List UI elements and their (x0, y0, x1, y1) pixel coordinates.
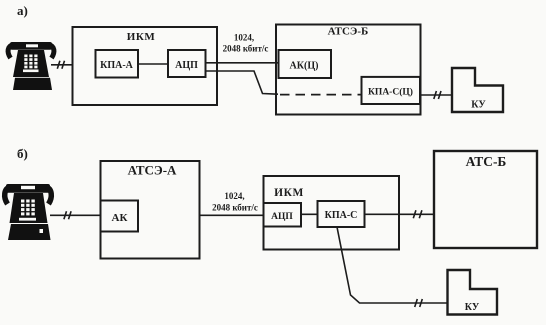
block ATS-B (434, 151, 537, 248)
label b) (17, 146, 28, 161)
svg-text:б): б) (17, 146, 28, 161)
svg-text:ИКМ: ИКМ (127, 31, 156, 43)
label a) (17, 3, 28, 18)
wire ACP to KPA-S (301, 213, 318, 215)
svg-text:АК(Ц): АК(Ц) (290, 61, 319, 72)
block ATSE-A (101, 161, 200, 259)
svg-text:АТСЭ-А: АТСЭ-А (128, 163, 177, 178)
svg-text:АТС-Б: АТС-Б (466, 154, 507, 169)
block IKM (PCM equipment), diagram a (73, 27, 218, 105)
block KPA-S(C) inside ATSE-B (362, 77, 421, 104)
svg-text:КПА-А: КПА-А (100, 60, 134, 71)
svg-text:АК: АК (112, 212, 128, 224)
svg-text:КПА-С(Ц): КПА-С(Ц) (368, 87, 413, 98)
svg-text:КУ: КУ (465, 302, 480, 313)
wire ATSE-B to KU (diagram a) with ticks (421, 91, 453, 99)
block KPA-S (diagram b) (318, 201, 365, 227)
svg-text:а): а) (17, 3, 28, 18)
svg-text:2048 кбит/с: 2048 кбит/с (212, 203, 258, 213)
svg-text:1024,: 1024, (224, 191, 244, 201)
svg-text:2048 кбит/с: 2048 кбит/с (223, 44, 269, 54)
wire TA1 to IKM with line ticks (51, 61, 73, 69)
block ATSE-B (276, 25, 421, 115)
block KU (diagram b) (448, 270, 498, 315)
svg-text:АТСЭ-Б: АТСЭ-Б (328, 26, 369, 38)
label 1024, 2048 kbit/s (diagram b) (212, 191, 258, 213)
dashed wire to KPA-S(C) (280, 94, 362, 96)
block IKM (diagram b) (264, 176, 400, 250)
svg-text:АЦП: АЦП (175, 60, 198, 71)
svg-text:КПА-С: КПА-С (325, 210, 358, 221)
block KU (diagram a) (452, 68, 503, 112)
svg-text:КУ: КУ (471, 100, 486, 111)
label 1024, 2048 kbit/s (diagram a) (223, 33, 269, 54)
block KPA-A inside IKM (96, 50, 139, 78)
svg-text:ИКМ: ИКМ (274, 187, 304, 199)
wire KPA-S to ATS-B with ticks (365, 210, 435, 218)
wire ACP to AK(C) (upper digital path) (206, 62, 279, 64)
block ACP (diagram b) (264, 203, 302, 227)
wire ATSE-A to IKM (diagram b) (200, 214, 264, 216)
svg-text:1024,: 1024, (234, 33, 254, 43)
wire KPA-A to ACP (138, 63, 168, 65)
svg-text:АЦП: АЦП (271, 212, 293, 222)
wire KPA-S down to KU (diagram b) with ticks (337, 227, 448, 307)
wire ACP lower path to ATSE-B (206, 71, 279, 94)
block ACP (ADC) inside IKM (168, 50, 206, 77)
telephone set TA2 (5, 184, 52, 240)
block AK(C) inside ATSE-B (279, 50, 332, 78)
block AK inside ATSE-A (101, 201, 139, 232)
wire TA2 to ATSE-A with ticks (50, 211, 101, 219)
telephone set TA1 (8, 42, 54, 90)
